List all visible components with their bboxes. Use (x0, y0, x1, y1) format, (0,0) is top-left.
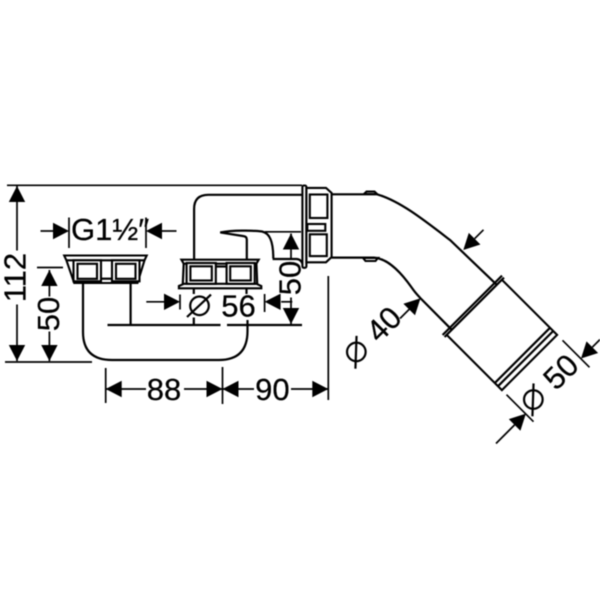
outlet pipe bottom tab (363, 258, 378, 261)
swivel nut groove slot (307, 224, 325, 231)
dimension D56 text (187, 288, 256, 323)
dimension 90 line (223, 388, 329, 390)
dimension 112 top extension line (7, 184, 302, 186)
dimension 50 left line (48, 270, 50, 361)
svg-text:90: 90 (255, 372, 289, 407)
dimension 90 arrow left (223, 381, 239, 397)
sleeve lip line 2 (443, 276, 502, 335)
svg-text:G1½″: G1½″ (71, 212, 149, 247)
dimension D56 left tail and arrow (146, 301, 164, 303)
elbow inner spout (beak) top edge (220, 231, 273, 259)
dimension G1.5 left tail and arrow (41, 230, 54, 232)
dimension D50 text (512, 347, 585, 420)
dimension 50 right line (290, 234, 292, 325)
dimension D50 arrow upper (581, 341, 598, 358)
dimension D56 right arrow and tail (281, 301, 292, 303)
middle flange castellation square 2 (227, 263, 255, 284)
dimension 88 line (106, 388, 223, 390)
elbow inner spout (beak) bottom edge (220, 232, 247, 259)
dimension 50 right arrow down (283, 308, 299, 324)
dimension D40 arrow lower (403, 298, 420, 315)
dimension G1.5 tick right (145, 218, 147, 249)
middle flange web between castellations (216, 265, 227, 267)
dimension D40 arrow upper (463, 233, 480, 250)
dimension D56 tick right (264, 294, 266, 312)
sleeve body (447, 280, 557, 390)
sleeve end rib 2 (495, 328, 550, 383)
dimension 50 right extension line (265, 231, 301, 233)
dimension 50 left arrow down (41, 345, 57, 361)
outlet pipe top tab (364, 192, 377, 194)
middle flange bottom plate (179, 284, 261, 289)
dimension 50 left extension line (37, 267, 63, 269)
swivel nut square 1 (310, 195, 328, 219)
middle flange top bar (181, 260, 258, 264)
dimension 90 arrow right (312, 381, 328, 397)
sleeve end rib 1 (498, 331, 553, 386)
left flange plate bottom line (66, 259, 144, 261)
dimension D40 arrow upper tail (475, 230, 484, 239)
outlet pipe top edge (332, 194, 497, 284)
dimension G1.5 right arrow and tail (162, 230, 177, 232)
left flange web between castellations (101, 278, 112, 280)
dimension 88 arrow right (207, 381, 223, 397)
dimension 112 bottom extension line (5, 361, 92, 363)
dimension D50 upper arrow tail (592, 340, 600, 348)
swivel nut square 2 (310, 234, 327, 256)
trap U-tube outline (83, 283, 248, 360)
dimension D56 tick left (179, 295, 181, 310)
svg-text:50: 50 (31, 297, 66, 331)
dimension D40 text (335, 300, 408, 373)
dimension D50 extension line upper (563, 340, 590, 367)
dimension 88 90 tick middle (222, 367, 224, 404)
dimension D50 arrow lower (509, 414, 526, 431)
swivel nut stack body (306, 188, 331, 262)
dimension 50 right arrow up (283, 234, 299, 250)
dimension 88 90 tick left (105, 368, 107, 403)
left flange castellation square 2 (112, 260, 140, 281)
dimension 88 90 right extension line (327, 276, 329, 400)
dimension G1.5 tick left (68, 218, 70, 249)
tailpiece stubs under middle flange (194, 288, 247, 325)
dimension D50 lower arrow tail (496, 425, 515, 444)
elbow bottom wall to nut (273, 259, 304, 268)
svg-text:112: 112 (0, 253, 32, 302)
tailpiece under left flange (130, 283, 132, 325)
dimension 88 arrow left (106, 381, 122, 397)
elbow outer wall (left + top) (194, 195, 302, 260)
trap top chord line (108, 324, 303, 326)
dimension 112 arrow down (9, 345, 25, 361)
middle flange side walls (183, 264, 257, 284)
dimension D40 leader line (400, 309, 410, 319)
svg-text:56: 56 (221, 288, 255, 323)
dimension 50 left arrow up (41, 270, 57, 286)
sleeve lip line 1 (445, 278, 504, 337)
left flange castellation square 1 (74, 260, 102, 281)
middle flange castellation square 1 (187, 263, 216, 284)
left flange silhouette (64, 256, 147, 284)
swivel nut stack plate (302, 186, 306, 268)
svg-text:88: 88 (147, 372, 181, 407)
outlet pipe bottom edge (332, 258, 452, 330)
dimension D50 extension line lower (507, 395, 534, 422)
svg-text:50: 50 (273, 261, 308, 295)
dimension 112 arrow up (9, 186, 25, 202)
dimension 112 line (16, 186, 18, 361)
